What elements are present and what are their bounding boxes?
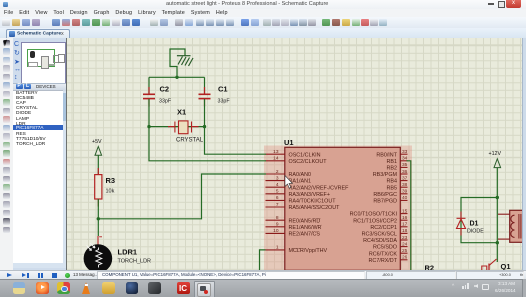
status bar <box>0 270 526 280</box>
svg-text:24: 24 <box>402 241 408 247</box>
resistor R3 <box>95 175 102 199</box>
tray + clock <box>452 283 454 288</box>
svg-text:36: 36 <box>402 169 408 175</box>
relay RL1 coil stubs <box>498 214 510 239</box>
R3 pin stubs <box>97 168 99 175</box>
svg-text:RC0/T1OSO/T1CKI: RC0/T1OSO/T1CKI <box>350 212 397 218</box>
U1 pin numbers and names <box>273 149 408 264</box>
svg-text:RB3/PGM: RB3/PGM <box>373 172 398 178</box>
svg-text:RE2/AN7/CS: RE2/AN7/CS <box>289 232 321 238</box>
junction D1 bottom <box>496 241 499 244</box>
svg-text:RB1: RB1 <box>387 159 398 165</box>
wire +5V to R3 <box>97 155 99 174</box>
wire RA0 pin2 <box>98 174 266 219</box>
svg-text:C2: C2 <box>160 85 170 94</box>
toolbar <box>0 17 526 29</box>
svg-text:16: 16 <box>402 215 408 221</box>
wire OSC2 pin14 <box>149 127 266 161</box>
transistor Q1 base bar <box>488 264 490 271</box>
svg-text:RA5/AN4/SS/C2OUT: RA5/AN4/SS/C2OUT <box>289 205 341 211</box>
ground wire <box>170 49 185 77</box>
svg-text:U1: U1 <box>284 138 294 147</box>
svg-text:RC2/CCP1: RC2/CCP1 <box>370 225 397 231</box>
LDR1 body TORCH_LDR <box>84 244 113 273</box>
junction crystal right <box>203 125 206 128</box>
D1 pin stubs <box>460 212 462 219</box>
diode D1 <box>457 218 466 228</box>
wire junction to LDR1 <box>97 219 99 236</box>
svg-text:RB2: RB2 <box>387 166 398 172</box>
svg-text:RB0/INT: RB0/INT <box>376 152 397 158</box>
svg-text:RC7/RX/DT: RC7/RX/DT <box>369 258 398 264</box>
svg-text:7: 7 <box>276 202 279 208</box>
LDR1 pin stub <box>97 236 99 245</box>
svg-text:10k: 10k <box>106 189 115 195</box>
svg-text:33pF: 33pF <box>218 99 231 105</box>
svg-text:13: 13 <box>273 149 279 155</box>
svg-text:DIODE: DIODE <box>467 229 484 235</box>
svg-text:MCLR/Vpp/THV: MCLR/Vpp/THV <box>289 248 328 254</box>
ground symbol <box>177 56 193 66</box>
svg-text:26: 26 <box>402 255 408 261</box>
wire C2 top <box>148 77 150 94</box>
svg-text:10: 10 <box>273 228 279 234</box>
wire D1 loop <box>461 198 497 243</box>
svg-text:25: 25 <box>402 248 408 254</box>
svg-text:35: 35 <box>402 162 408 168</box>
LDR1 pin end marker <box>99 236 102 238</box>
svg-text:TORCH_LDR: TORCH_LDR <box>118 259 152 265</box>
svg-text:RB4: RB4 <box>387 179 398 185</box>
svg-text:Q1: Q1 <box>501 262 511 270</box>
C1 pin stubs <box>204 87 206 94</box>
U1 left pin stubs <box>266 154 285 250</box>
svg-text:RB6/PGC: RB6/PGC <box>373 192 397 198</box>
devices header <box>13 83 66 91</box>
wire C1 bottom <box>204 99 206 127</box>
schematic vertical scrollbar <box>522 38 526 270</box>
svg-text:D1: D1 <box>470 221 479 228</box>
transistor Q1 collector lead <box>489 259 497 266</box>
svg-text:C1: C1 <box>218 85 228 94</box>
svg-text:33pF: 33pF <box>159 99 172 105</box>
mouse cursor <box>285 176 292 189</box>
IC U1 highlight halo <box>264 146 412 271</box>
wire top horizontal C2-C1 <box>149 76 205 78</box>
svg-text:+12V: +12V <box>489 151 502 157</box>
svg-text:1: 1 <box>276 245 279 251</box>
svg-text:9: 9 <box>276 222 279 228</box>
LDR1 light arrows <box>87 243 96 251</box>
LDR1 resistor zigzag <box>96 248 102 268</box>
wire +12V down <box>496 168 498 262</box>
title bar <box>0 0 526 10</box>
svg-text:6: 6 <box>276 195 279 201</box>
power +5V arrow <box>95 147 102 156</box>
svg-text:23: 23 <box>402 235 408 241</box>
svg-text:+5V: +5V <box>92 139 102 145</box>
crystal X1 <box>175 121 192 134</box>
wire C1 top <box>204 77 206 94</box>
svg-text:8: 8 <box>276 215 279 221</box>
U1 right pin stubs <box>400 154 407 260</box>
R2 body top (cut) <box>482 266 487 271</box>
svg-text:RC3/SCK/SCL: RC3/SCK/SCL <box>362 232 397 238</box>
devices list <box>13 90 63 268</box>
svg-text:RC4/SDI/SDA: RC4/SDI/SDA <box>363 238 397 244</box>
svg-text:15: 15 <box>402 208 408 214</box>
power +12V arrow <box>494 159 501 168</box>
wire C2 bottom <box>148 99 150 127</box>
schematic area <box>66 38 523 270</box>
svg-text:17: 17 <box>402 222 408 228</box>
svg-text:RE1/AN6/WR: RE1/AN6/WR <box>289 225 322 231</box>
rotate controls column <box>13 38 66 279</box>
svg-text:14: 14 <box>273 156 279 162</box>
svg-text:RC6/TX/CK: RC6/TX/CK <box>369 251 398 257</box>
svg-text:40: 40 <box>402 195 408 201</box>
C2 pin stubs <box>148 87 150 94</box>
svg-text:LDR1: LDR1 <box>118 248 138 257</box>
svg-text:RC5/SDO: RC5/SDO <box>373 245 397 251</box>
svg-text:18: 18 <box>402 228 408 234</box>
svg-text:OSC2/CLKOUT: OSC2/CLKOUT <box>289 159 328 165</box>
svg-text:RB7/PGD: RB7/PGD <box>373 199 397 205</box>
svg-text:33: 33 <box>402 149 408 155</box>
wire R3 to junction <box>97 199 99 219</box>
svg-text:37: 37 <box>402 175 408 181</box>
minimap <box>21 42 66 84</box>
svg-text:OSC1/CLKIN: OSC1/CLKIN <box>289 152 321 158</box>
svg-text:38: 38 <box>402 182 408 188</box>
junction R3/LDR/RA0 <box>97 217 100 220</box>
relay RL1 body <box>510 210 523 242</box>
svg-text:2: 2 <box>276 169 279 175</box>
svg-text:R3: R3 <box>106 176 116 185</box>
taskbar <box>0 279 526 297</box>
svg-text:39: 39 <box>402 189 408 195</box>
wire RB1 pin34 down <box>407 161 411 271</box>
left mode toolbar <box>0 38 14 279</box>
IC U1 body PIC16F877A <box>285 147 401 270</box>
svg-text:RA0/AN0: RA0/AN0 <box>289 172 311 178</box>
svg-text:RE0/AN5/RD: RE0/AN5/RD <box>289 218 321 224</box>
svg-text:4: 4 <box>276 182 279 188</box>
X1 pin stubs <box>168 126 175 128</box>
svg-text:RA3/AN3/VREF+: RA3/AN3/VREF+ <box>289 192 331 198</box>
svg-text:RB5: RB5 <box>387 185 398 191</box>
tab bar <box>0 28 526 39</box>
relay RL1 coil <box>511 215 515 237</box>
svg-text:RA2/AN2/VREF-/CVREF: RA2/AN2/VREF-/CVREF <box>289 185 350 191</box>
capacitor C1 <box>199 94 211 98</box>
junction crystal left <box>147 125 150 128</box>
relay RL1 core <box>518 214 520 239</box>
junction +12V/D1 top <box>496 196 499 199</box>
svg-text:RA4/T0CKI/C1OUT: RA4/T0CKI/C1OUT <box>289 199 337 205</box>
svg-text:RC1/T1OSI/CCP2: RC1/T1OSI/CCP2 <box>353 218 397 224</box>
wire MCLR pin1 down <box>260 250 266 271</box>
capacitor C2 <box>143 94 155 98</box>
menu bar <box>0 9 526 17</box>
svg-text:3: 3 <box>276 175 279 181</box>
svg-text:RA1/AN1: RA1/AN1 <box>289 179 311 185</box>
svg-text:5: 5 <box>276 189 279 195</box>
svg-text:CRYSTAL: CRYSTAL <box>176 137 204 143</box>
wire crystal horizontal <box>149 126 205 128</box>
junction ground/top wire <box>175 76 178 79</box>
svg-text:X1: X1 <box>177 108 186 117</box>
wire OSC1 pin13 <box>205 127 267 155</box>
